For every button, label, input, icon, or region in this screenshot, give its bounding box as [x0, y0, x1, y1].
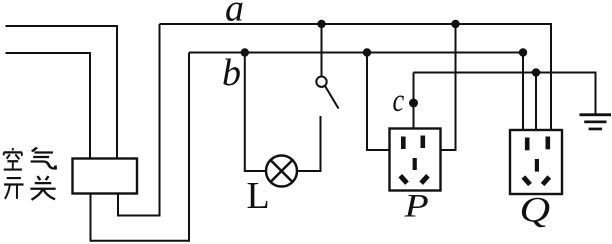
junction dot on b: socket P branch — [363, 48, 371, 56]
wire: c down to socket Q earth pin — [535, 73, 537, 131]
ground symbol — [580, 113, 612, 130]
char 开 — [4, 178, 24, 199]
svg-text:a: a — [225, 0, 244, 30]
label: 空气开关 (drawn strokes) — [4, 148, 56, 200]
wire b (horizontal) — [189, 52, 523, 54]
wire a (top horizontal, right corner down to socket Q) — [160, 24, 552, 130]
wire: left feed line 1 (top, into breaker) — [6, 26, 118, 159]
wire: b end down to socket Q — [522, 53, 524, 131]
junction dot: end of b (socket Q branch) — [519, 48, 527, 56]
junction dot on a: switch branch — [317, 20, 325, 28]
socket Q slots — [525, 137, 550, 172]
svg-text:c: c — [393, 82, 405, 118]
wire: b down to socket P left terminal — [367, 53, 390, 151]
svg-text:P: P — [403, 188, 428, 224]
switch blade (open) — [325, 86, 338, 108]
air switch (breaker) box — [73, 159, 138, 194]
lamp L (circle with X) — [266, 156, 297, 187]
wire: breaker output loop to wire a — [118, 24, 160, 216]
char 关 — [30, 176, 55, 200]
char 空 — [4, 148, 22, 170]
wire: lamp right terminal up to switch — [297, 116, 321, 171]
wire: lamp branch (b down to lamp left terminal) — [245, 53, 266, 172]
svg-text:b: b — [222, 52, 241, 94]
wire: node c down to socket P top (earth pin) — [413, 73, 415, 129]
socket P body — [390, 129, 441, 191]
socket Q body — [510, 130, 562, 194]
switch pivot circle — [316, 77, 326, 87]
junction dot on b: lamp branch — [241, 48, 249, 56]
node c dot — [409, 99, 418, 108]
svg-text:Q: Q — [520, 189, 551, 229]
wire c (earth wire to ground) — [414, 73, 596, 114]
svg-text:L: L — [247, 175, 270, 217]
char 气 — [31, 148, 56, 169]
wire: left feed line 2 (into breaker) — [6, 53, 91, 159]
socket P slots — [401, 136, 425, 171]
junction dot on a: socket P branch — [451, 20, 459, 28]
wire: breaker output loop to wire b — [91, 53, 190, 241]
wire: switch feed from a — [321, 24, 323, 76]
wire: socket P right terminal up to a — [441, 24, 456, 150]
junction dot on wire c: socket Q earth branch — [532, 68, 540, 76]
